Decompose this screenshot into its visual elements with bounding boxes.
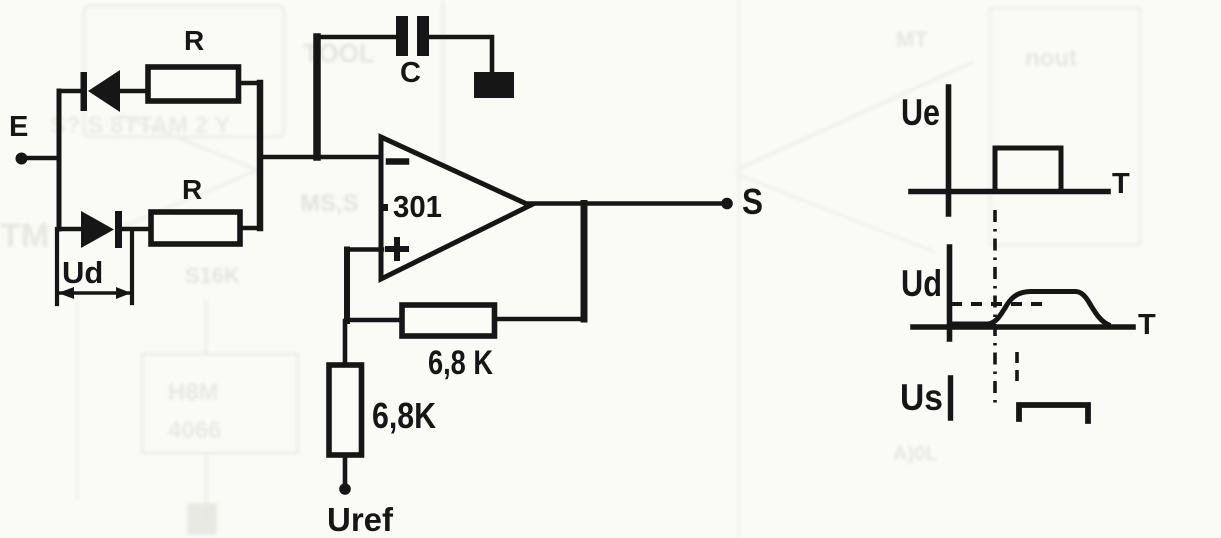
svg-text:Ud: Ud [901, 263, 942, 304]
wire R4 to Uref [343, 458, 348, 485]
op-amp plus sign horizontal [388, 246, 406, 252]
Ud dimension arrow line [60, 291, 129, 295]
wire capacitor branch top left [316, 35, 397, 40]
resistor R4 body [329, 365, 362, 455]
svg-text:S16K: S16K [185, 263, 240, 288]
wire R3 to junction [347, 318, 399, 323]
Us pulse [1019, 405, 1088, 421]
diode D2 cathode bar [115, 211, 122, 248]
op-amp pin tick [381, 204, 388, 211]
svg-text:301: 301 [393, 189, 442, 224]
terminal E dot [16, 153, 28, 165]
svg-text:E: E [9, 111, 28, 143]
svg-text:6,8 K: 6,8 K [428, 344, 493, 382]
svg-text:Ue: Ue [901, 92, 940, 133]
Ue pulse [995, 148, 1061, 191]
wire plus input [347, 247, 382, 252]
wire op-amp output [528, 201, 727, 206]
capacitor C left plate [396, 16, 408, 56]
wire E to left bus [26, 156, 59, 161]
svg-text:T: T [1112, 168, 1130, 200]
terminal Uref dot [339, 483, 351, 495]
wire plus input vertical [344, 250, 350, 322]
capacitor C right plate [417, 16, 429, 56]
wire junction to R4 [343, 321, 348, 362]
svg-text:H8M: H8M [168, 379, 219, 406]
wire D1 to R1 [119, 89, 146, 94]
wire summing node to op-amp [260, 155, 382, 160]
svg-text:Us: Us [900, 377, 943, 418]
Ud vertical axis [947, 247, 953, 339]
op-amp plus sign vertical [394, 240, 400, 258]
dash-dot timing line 2 [1015, 352, 1019, 381]
svg-text:C: C [400, 57, 421, 89]
wire bottom branch left [59, 227, 82, 232]
Ud horizontal axis T [913, 324, 1133, 330]
diode D1 triangle [88, 70, 120, 112]
Ud dimension right extension [130, 232, 134, 303]
diode D2 triangle [81, 211, 114, 248]
svg-text:T: T [1138, 309, 1156, 341]
Ud dimension arrowhead right [116, 287, 131, 299]
svg-text:TM: TM [0, 217, 49, 255]
svg-text:MS,S: MS,S [300, 190, 359, 217]
terminal S dot [721, 198, 733, 210]
Ue horizontal axis T [911, 189, 1108, 195]
op-amp minus sign [389, 158, 406, 165]
dash-dot timing line [993, 210, 997, 403]
svg-text:4066: 4066 [168, 417, 221, 444]
wire feedback bottom [497, 317, 584, 322]
resistor R2 body [151, 212, 240, 244]
ground block [474, 72, 514, 98]
svg-text:S: S [742, 181, 763, 222]
svg-text:R: R [182, 174, 202, 205]
op-amp U1 body [381, 137, 530, 279]
wire capacitor to ground [429, 37, 492, 73]
resistor R3 feedback body [402, 305, 495, 336]
Us axis bar [948, 378, 953, 418]
gray smudge bottom-left [187, 503, 217, 535]
Ud dimension left extension [55, 229, 59, 304]
diode D1 cathode bar [81, 72, 88, 111]
svg-text:6,8K: 6,8K [372, 395, 436, 436]
resistor R1 body [148, 67, 239, 101]
wire right vertical bus [257, 83, 264, 228]
svg-text:A)0L: A)0L [893, 443, 937, 465]
wire left vertical bus [57, 91, 62, 229]
wire capacitor branch vertical [313, 37, 321, 157]
svg-text:Uref: Uref [327, 501, 394, 538]
wire feedback vertical [581, 204, 588, 320]
svg-text:nout: nout [1025, 45, 1077, 72]
svg-text:MT: MT [896, 27, 928, 52]
wire R1 to right bus [241, 81, 260, 86]
svg-text:Ud: Ud [62, 255, 103, 290]
Ud threshold dashed line [951, 302, 1043, 306]
wire R2 to right bus [243, 226, 260, 231]
svg-text:R: R [184, 25, 204, 56]
Ue vertical axis [946, 87, 952, 214]
svg-text:S? S 8TTAM 2 Y: S? S 8TTAM 2 Y [50, 112, 230, 139]
wire top branch left [59, 89, 82, 94]
wire D2 to R2 [122, 227, 148, 232]
Ud dimension arrowhead left [58, 287, 74, 299]
Ud curve [953, 292, 1108, 325]
